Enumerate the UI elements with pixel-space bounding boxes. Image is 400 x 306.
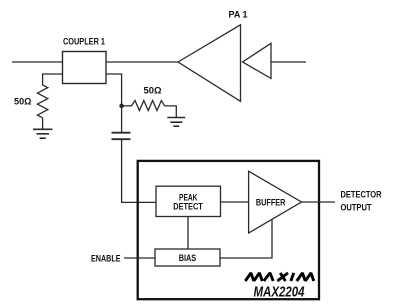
peak detect block: [156, 186, 221, 216]
svg-text:OUTPUT: OUTPUT: [341, 203, 372, 214]
wire bias to buffer: [220, 220, 272, 259]
wire main input: [12, 61, 63, 63]
amplifier PA1 stage 1 triangle: [178, 25, 241, 102]
op-amp buffer U2: [249, 171, 302, 233]
MAXIM logo: [245, 273, 313, 281]
svg-text:DETECT: DETECT: [173, 201, 203, 212]
capacitor C1: [112, 133, 131, 140]
svg-text:MAX2204: MAX2204: [254, 285, 305, 301]
resistor R1 50ohm: [37, 85, 47, 118]
ground G2: [167, 118, 185, 127]
bias block: [155, 249, 220, 266]
IC MAX2204 outline box: [138, 161, 319, 299]
ground G1: [33, 129, 52, 138]
wire enable input: [124, 257, 155, 259]
wire coupler to PA1: [106, 61, 179, 63]
svg-text:BUFFER: BUFFER: [256, 198, 286, 209]
svg-text:PA 1: PA 1: [229, 10, 249, 21]
amplifier PA1 stage 2 triangle: [243, 43, 272, 78]
junction node A: [119, 104, 124, 109]
wire coupler lower-left port: [43, 74, 63, 85]
svg-text:ENABLE: ENABLE: [91, 253, 121, 264]
wire capacitor to peak detect: [122, 139, 156, 202]
svg-text:DETECTOR: DETECTOR: [341, 190, 382, 201]
wire detector output: [302, 201, 336, 203]
svg-text:50Ω: 50Ω: [144, 85, 162, 96]
wire peak detect to bias: [187, 217, 189, 250]
svg-text:BIAS: BIAS: [179, 253, 197, 264]
svg-text:50Ω: 50Ω: [14, 97, 32, 108]
wire coupler lower-right port: [106, 74, 122, 132]
resistor R2 50ohm: [122, 101, 177, 118]
wire peak detect to buffer: [221, 201, 249, 203]
coupler 1 box: [63, 52, 107, 84]
svg-text:COUPLER 1: COUPLER 1: [63, 37, 106, 48]
wire R1 to ground: [42, 118, 44, 130]
wire PA1 output: [271, 61, 306, 63]
